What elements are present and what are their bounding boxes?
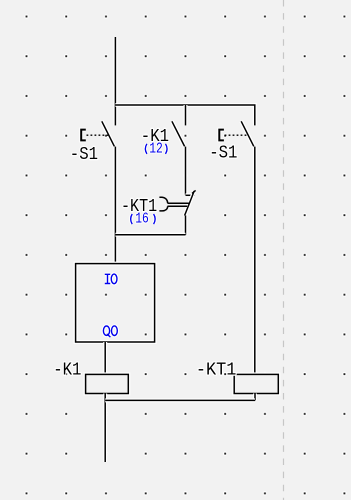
label -KT1 (contact): [121, 197, 157, 217]
PLC input I0: [105, 274, 117, 284]
wire: horizontal bus from node A to right branch: [115, 105, 254, 125]
wire: KT1 coil down to bottom connector: [253, 394, 257, 401]
wire: middle branch between K1 and KT1: [184, 147, 188, 195]
label -KT1 (coil): [196, 361, 237, 381]
wire: K1 coil down to bottom rail and page exit: [103, 394, 107, 463]
cross-reference (12): [145, 140, 167, 157]
wire: connector middle branch to left branch: [115, 233, 185, 237]
timed contact KT1 (on-delay NO): [159, 190, 195, 215]
wire: supply drop from top into node A: [113, 37, 117, 125]
svg-text:16: 16: [135, 211, 149, 228]
wire: left branch from S1 to PLC box: [113, 147, 117, 264]
wire: right branch from S1 down to KT1 coil: [253, 147, 257, 375]
label -K1 (contact): [141, 127, 169, 147]
wire: bottom connector between coil returns: [105, 398, 255, 402]
pushbutton S1 left (NO contact with manual actuator): [81, 121, 114, 146]
svg-text:-S1: -S1: [70, 145, 98, 165]
pushbutton S1 right (NO contact with manual actuator): [219, 121, 254, 146]
coil KT1: [234, 374, 278, 393]
PLC output Q0: [103, 326, 117, 337]
label -S1 (left): [70, 145, 98, 165]
cross-reference (16): [131, 211, 156, 228]
relay contact K1 (NO): [172, 121, 185, 146]
svg-text:12: 12: [149, 140, 163, 157]
column separator (dashed page boundary): [283, 0, 285, 500]
PLC box: [76, 264, 155, 342]
wire: Q0 output to K1 coil: [103, 342, 107, 374]
svg-text:-KT1: -KT1: [196, 361, 237, 381]
label -S1 (right): [209, 144, 237, 164]
label -K1 (coil): [53, 361, 81, 381]
coil K1: [86, 374, 129, 393]
wire: middle branch upper: [184, 105, 188, 125]
wire: middle branch lower: [184, 216, 188, 235]
svg-text:-K1: -K1: [53, 361, 81, 381]
svg-text:-S1: -S1: [209, 144, 237, 164]
